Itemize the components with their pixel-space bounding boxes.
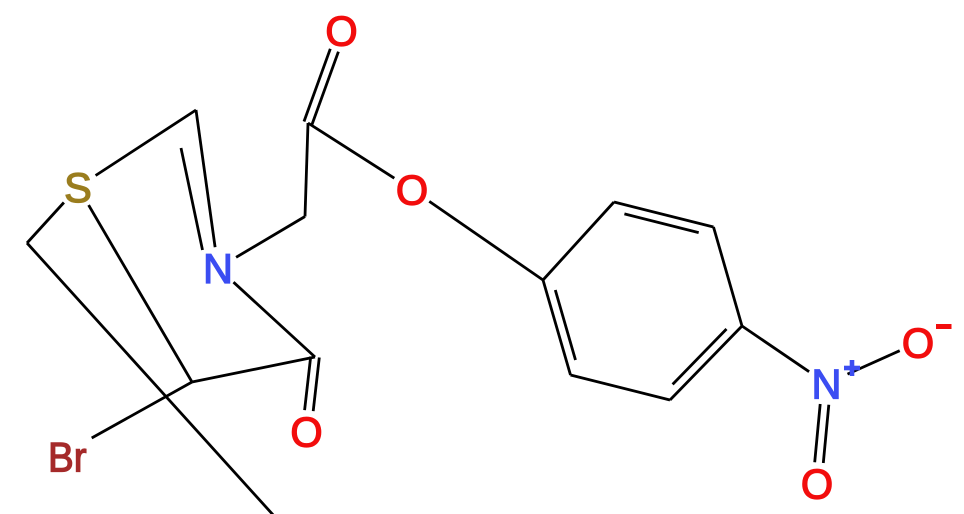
wire C5-Br [92,382,192,438]
wire C2=N double [196,110,215,247]
wire C5-S [89,205,192,382]
svg-text:Br: Br [48,435,87,481]
svg-text:S: S [64,164,92,211]
svg-text:O: O [290,409,322,456]
wire Cc-Oe [308,123,394,178]
wire Np=Obr double [815,404,821,462]
svg-text:N: N [203,245,233,292]
wire S-C2 [96,110,196,176]
wire Ca-Cc [305,123,308,217]
wire C4-C5 [192,357,315,382]
charge plus [844,360,860,376]
svg-text:O: O [902,320,934,367]
benzene ring [543,202,614,280]
svg-text:O: O [801,461,833,508]
wire C4=Ob double [305,357,311,411]
charge minus [936,324,952,329]
wire Cc=Ot double [312,52,338,125]
wire N-C4 [234,282,316,357]
wire S-Cx [27,203,64,244]
svg-text:N: N [812,361,842,408]
svg-text:O: O [396,167,428,214]
wire Np-Om single [848,351,900,374]
wire N-Ca [236,217,305,258]
wire Cx off-canvas [27,243,275,514]
svg-text:O: O [325,8,357,55]
wire R-Np [742,326,809,372]
wire Oe-C1 [429,201,543,280]
